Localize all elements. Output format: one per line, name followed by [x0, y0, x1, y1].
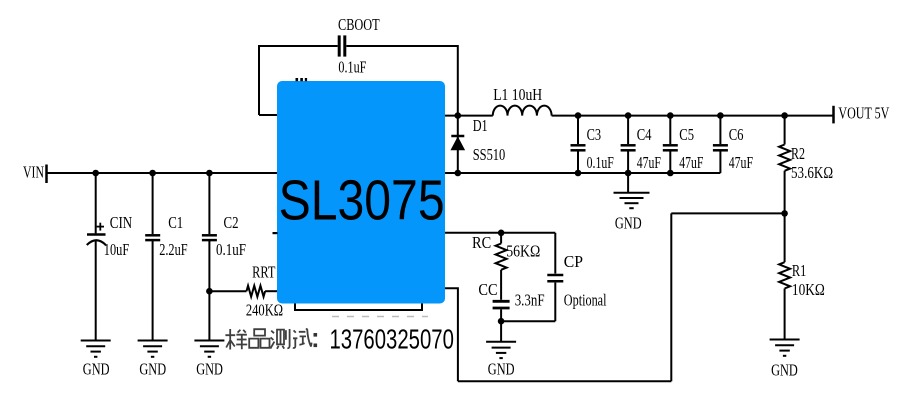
wire feedback bottom	[458, 380, 671, 382]
ground COMP	[486, 342, 516, 358]
svg-text:SS510: SS510	[473, 145, 506, 164]
label C6 value 47uF	[729, 153, 753, 172]
pin stub left of IC	[273, 232, 278, 234]
wire RRT to IC	[265, 290, 277, 292]
wire CBOOT left loop	[259, 46, 338, 115]
label RC value 56KΩ	[506, 241, 540, 260]
label CP Optional	[564, 291, 607, 310]
capacitor CP plates	[547, 275, 563, 281]
wire C2 branch vertical	[208, 173, 210, 340]
label CIN	[110, 213, 132, 232]
label RRT	[252, 263, 275, 282]
label C5 value 47uF	[679, 153, 703, 172]
svg-text:240KΩ: 240KΩ	[246, 301, 283, 320]
wire D1 vertical	[457, 116, 459, 173]
wire CBOOT right	[346, 46, 458, 116]
label C3	[587, 125, 602, 144]
wire SW rail	[445, 115, 834, 117]
svg-text:53.6KΩ: 53.6KΩ	[791, 163, 833, 182]
wire C4 branch	[627, 116, 629, 173]
label C5	[679, 125, 694, 144]
svg-text:13760325070: 13760325070	[330, 324, 454, 355]
node RRT junction	[206, 288, 213, 295]
svg-text:C4: C4	[637, 125, 652, 144]
wire C5 branch	[669, 116, 671, 173]
capacitor C6 plates	[713, 145, 728, 150]
junction dots SW rail	[575, 112, 788, 119]
label R2 value 53.6KΩ	[791, 163, 833, 182]
inductor L1	[493, 106, 552, 116]
label GND COMP	[488, 360, 515, 379]
label L1 10uH	[493, 85, 542, 104]
svg-text:0.1uF: 0.1uF	[587, 153, 614, 172]
wire faint dashed artifact under IC	[332, 316, 428, 318]
svg-text:47uF: 47uF	[679, 153, 703, 172]
op-amp U1 SL3075 IC body	[277, 81, 445, 304]
wire VIN rail	[48, 172, 278, 174]
label SL3075	[279, 169, 445, 232]
wire feedback to FB pin	[445, 288, 458, 381]
svg-text:GND: GND	[83, 360, 110, 379]
wire CP branch	[501, 233, 555, 321]
label CBOOT	[338, 15, 380, 34]
label watermark phone number	[330, 324, 454, 355]
wire feedback top	[671, 212, 784, 214]
capacitor C4 plates	[621, 145, 636, 150]
wire CC to junction	[500, 309, 502, 321]
svg-text:C6: C6	[729, 125, 744, 144]
svg-text:10uF: 10uF	[104, 240, 129, 259]
svg-text:GND: GND	[139, 360, 166, 379]
node VIN terminal tick	[45, 165, 48, 184]
label CBOOT value 0.1uF	[338, 58, 366, 77]
svg-text:CBOOT: CBOOT	[338, 15, 380, 34]
resistor R1	[779, 262, 790, 288]
wire GND rail right	[445, 172, 720, 174]
svg-text:C3: C3	[587, 125, 602, 144]
label R2	[791, 144, 805, 163]
ground C2	[194, 341, 224, 357]
pin label remnant above IC top	[296, 78, 308, 81]
svg-text:CC: CC	[478, 280, 497, 299]
svg-text:2.2uF: 2.2uF	[159, 240, 187, 259]
label GND CIN	[83, 360, 110, 379]
wire IC bottom bracket	[295, 303, 422, 310]
svg-text:GND: GND	[196, 360, 223, 379]
label R1 value 10KΩ	[792, 280, 825, 299]
ground C1	[138, 341, 168, 357]
svg-text:3.3nF: 3.3nF	[515, 291, 545, 310]
node SW diode junction	[455, 112, 462, 119]
junction dots GND rail	[455, 170, 674, 177]
capacitor C2 plates	[202, 235, 217, 240]
junction dots VIN rail	[92, 170, 212, 177]
wire R1 branch	[784, 213, 786, 339]
wire COMP horizontal	[445, 232, 555, 234]
label CIN value 10uF	[104, 240, 129, 259]
label CC value 3.3nF	[515, 291, 545, 310]
capacitor C5 plates	[663, 145, 678, 150]
capacitor C1 plates	[145, 235, 160, 240]
svg-text:56KΩ: 56KΩ	[506, 241, 540, 260]
svg-text:0.1uF: 0.1uF	[338, 58, 366, 77]
node feedback junction	[781, 210, 788, 217]
label CP	[564, 252, 583, 271]
label GND output	[615, 213, 642, 232]
resistor R2	[779, 145, 790, 171]
wire RC branch	[500, 233, 502, 300]
label C2 value 0.1uF	[216, 240, 246, 259]
label GND C1	[139, 360, 166, 379]
svg-text:R1: R1	[792, 261, 807, 280]
capacitor C3 plates	[571, 145, 586, 150]
label GND R1	[771, 361, 798, 380]
label VIN	[23, 162, 44, 181]
svg-text:Optional: Optional	[564, 291, 607, 310]
resistor RC	[496, 244, 507, 270]
svg-text:0.1uF: 0.1uF	[216, 240, 246, 259]
svg-text:D1: D1	[473, 116, 488, 135]
svg-text:CIN: CIN	[110, 213, 132, 232]
svg-text:GND: GND	[771, 361, 798, 380]
ground R1	[770, 340, 800, 356]
label C1	[168, 213, 183, 232]
label D1	[473, 116, 488, 135]
svg-text:47uF: 47uF	[637, 153, 661, 172]
wire CIN branch vertical	[95, 173, 97, 340]
label watermark 样品测试 hanzi drawn	[225, 329, 311, 350]
wire feedback vertical	[670, 213, 672, 381]
label RRT value 240KΩ	[246, 301, 283, 320]
svg-text:C5: C5	[679, 125, 694, 144]
capacitor CC plates	[493, 301, 510, 308]
wire output GND stem	[627, 173, 629, 192]
svg-text:SL3075: SL3075	[279, 169, 445, 232]
label C1 value 2.2uF	[159, 240, 187, 259]
capacitor CBOOT	[339, 35, 345, 56]
wire C3 branch	[577, 116, 579, 173]
svg-text:RRT: RRT	[252, 263, 275, 282]
label R1	[792, 261, 807, 280]
diode D1	[451, 136, 464, 150]
node CC bottom junction	[498, 318, 505, 325]
svg-text:VIN: VIN	[23, 162, 44, 181]
label C4	[637, 125, 652, 144]
ground CIN	[81, 341, 111, 357]
label RC	[472, 233, 491, 252]
label D1 value SS510	[473, 145, 506, 164]
label CC	[478, 280, 497, 299]
svg-text:C2: C2	[224, 213, 239, 232]
svg-text:CP: CP	[564, 252, 583, 271]
wire C1 branch vertical	[152, 173, 154, 340]
label C6	[729, 125, 744, 144]
wire R2 branch	[784, 116, 786, 214]
svg-text:R2: R2	[791, 144, 805, 163]
svg-text:GND: GND	[488, 360, 515, 379]
svg-text:GND: GND	[615, 213, 642, 232]
svg-text:47uF: 47uF	[729, 153, 753, 172]
svg-text:L1 10uH: L1 10uH	[493, 85, 542, 104]
capacitor CIN polarized	[87, 223, 106, 245]
label C2	[224, 213, 239, 232]
ground output caps	[614, 193, 650, 208]
node COMP junction	[498, 230, 505, 237]
wire RRT to C2	[209, 290, 246, 292]
label C3 value 0.1uF	[587, 153, 614, 172]
wire C6 branch	[719, 116, 721, 173]
svg-text:VOUT 5V: VOUT 5V	[838, 103, 889, 122]
resistor RRT	[247, 286, 266, 297]
label GND C2	[196, 360, 223, 379]
svg-text:C1: C1	[168, 213, 183, 232]
wire COMP GND stem	[500, 321, 502, 341]
label VOUT 5V	[838, 103, 889, 122]
label C4 value 47uF	[637, 153, 661, 172]
svg-text:RC: RC	[472, 233, 491, 252]
node VOUT terminal tick	[832, 106, 835, 124]
svg-text:10KΩ: 10KΩ	[792, 280, 825, 299]
label watermark colon	[314, 333, 318, 347]
